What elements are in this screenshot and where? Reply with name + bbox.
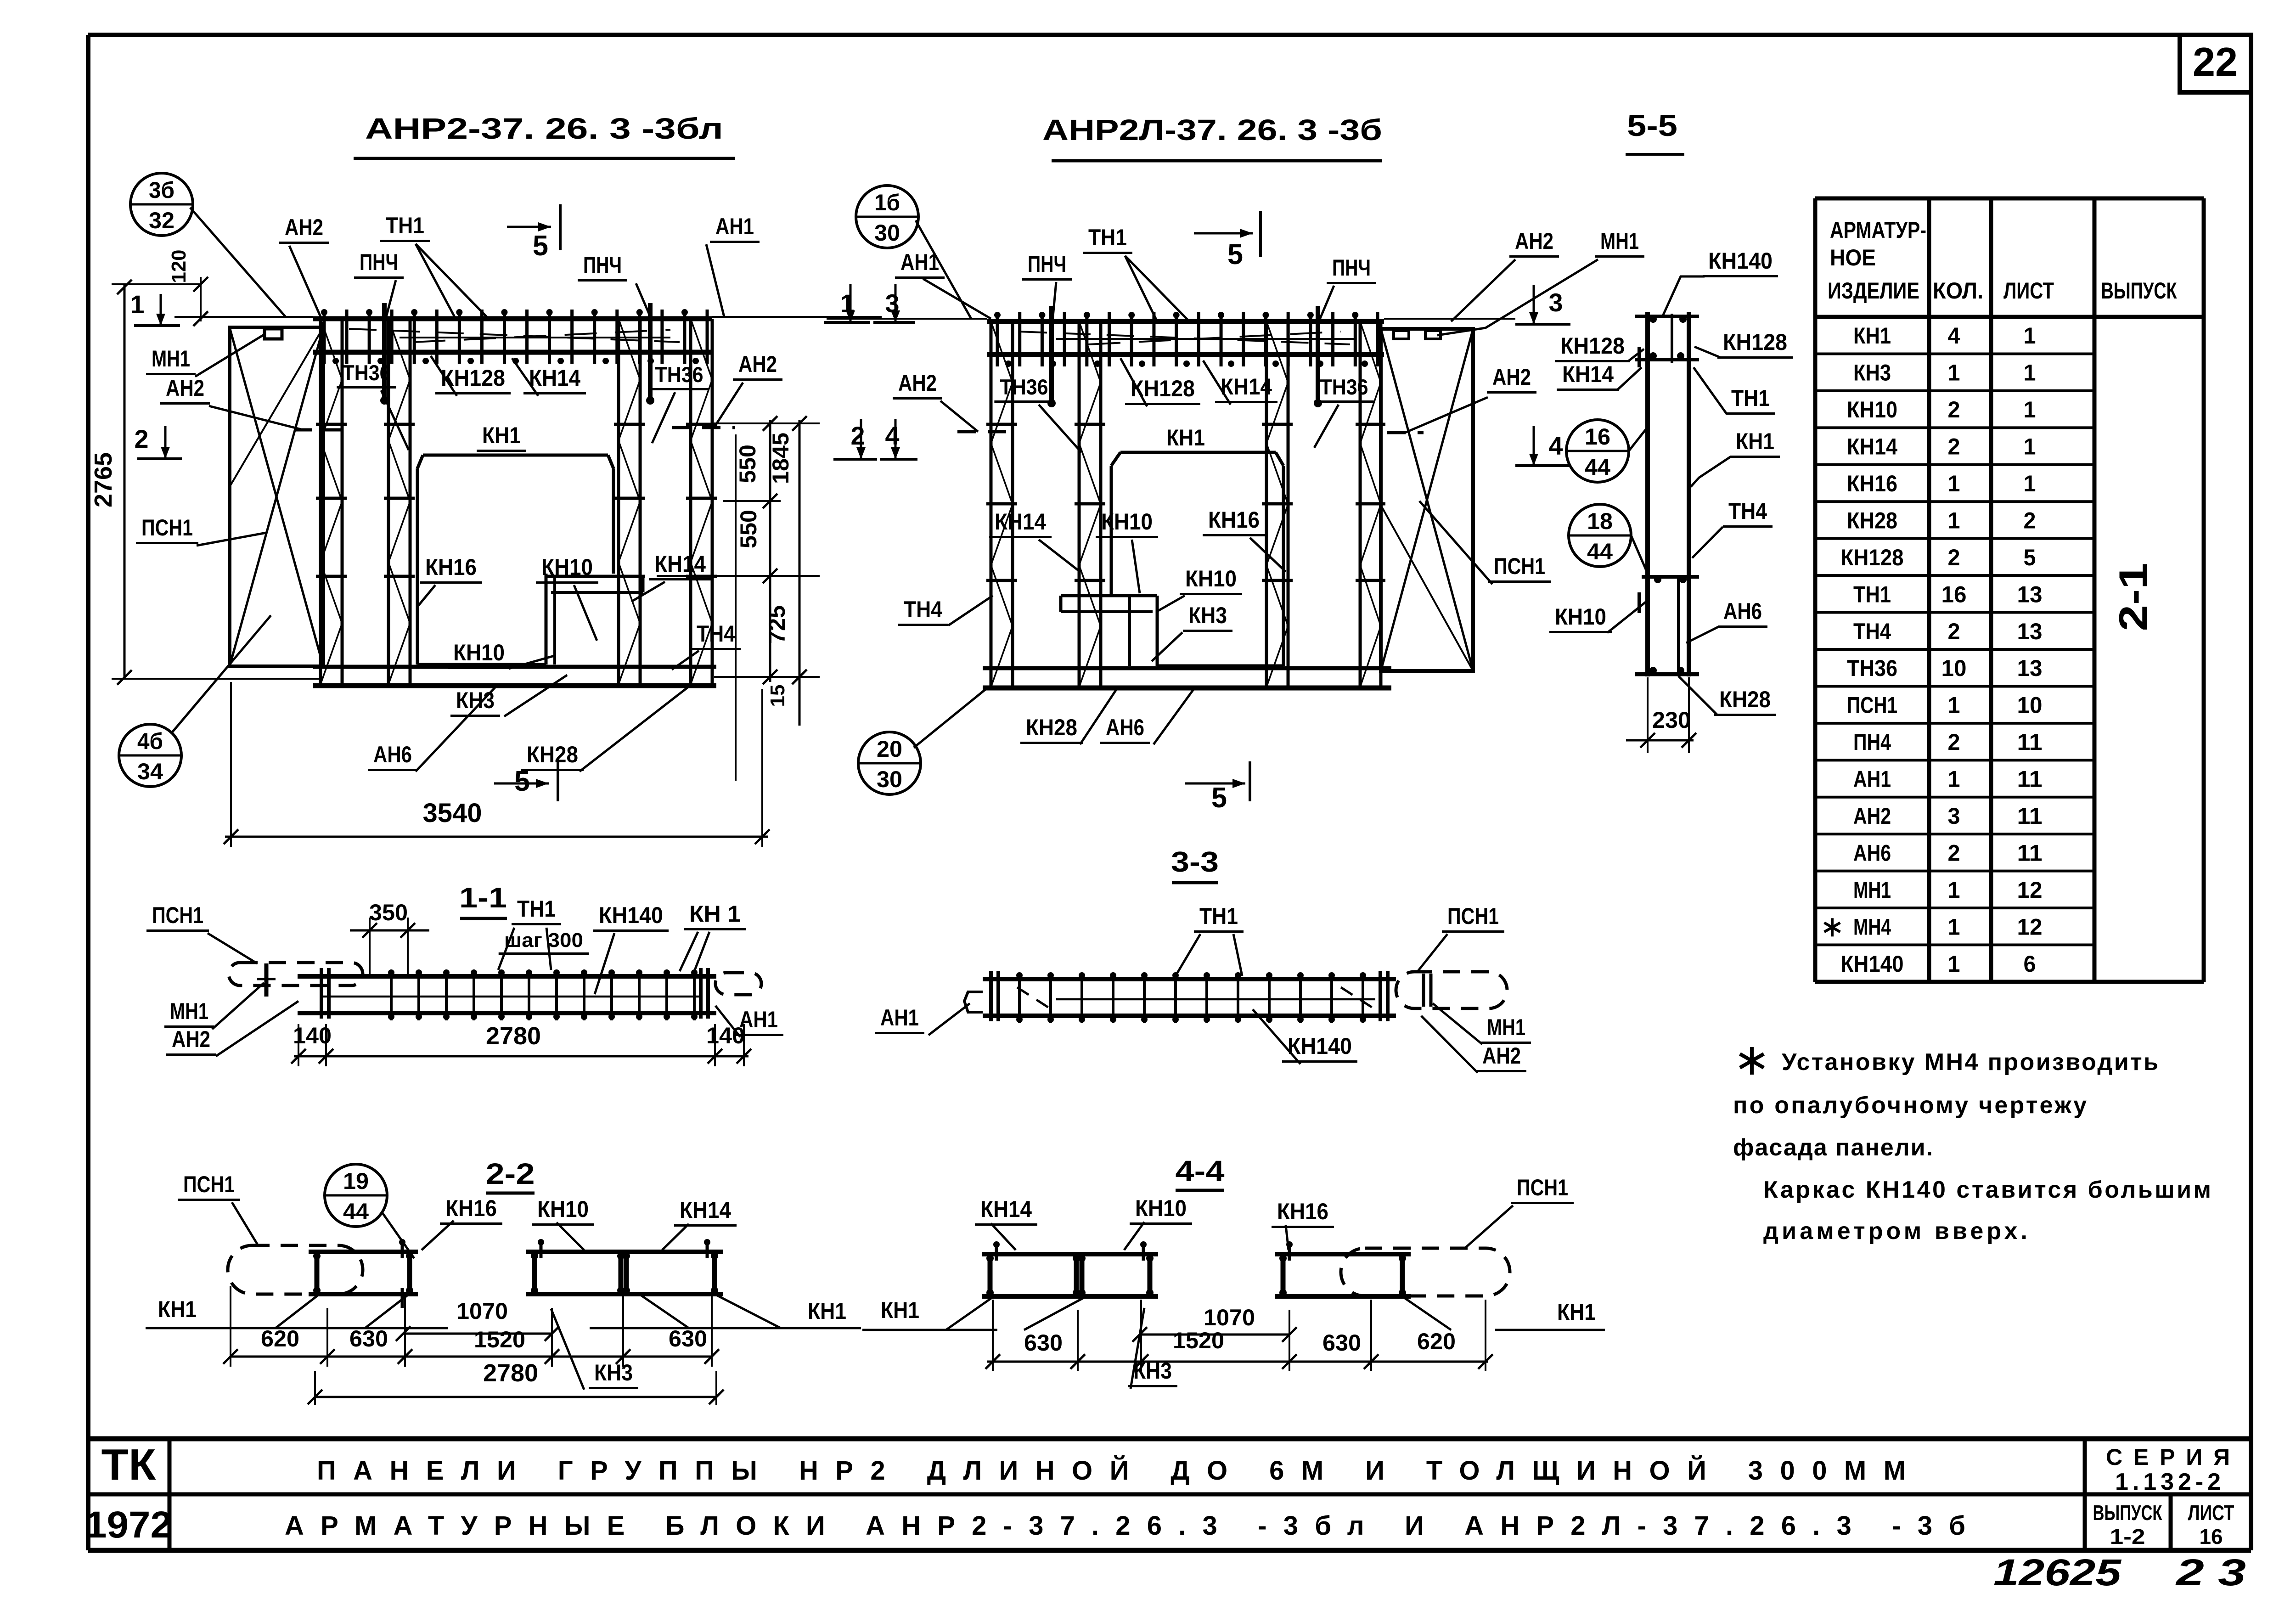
svg-text:МН1: МН1 <box>1853 877 1891 903</box>
svg-text:ПНЧ: ПНЧ <box>583 252 622 278</box>
svg-text:230: 230 <box>1652 707 1691 733</box>
svg-text:30: 30 <box>874 220 900 246</box>
svg-text:44: 44 <box>1585 454 1610 480</box>
svg-text:КН10: КН10 <box>453 640 505 665</box>
svg-text:2 3: 2 3 <box>2175 1552 2246 1594</box>
svg-text:10: 10 <box>1941 655 1967 681</box>
svg-text:МН1: МН1 <box>170 998 208 1024</box>
svg-text:диаметром вверх.: диаметром вверх. <box>1763 1218 2027 1245</box>
svg-text:КН16: КН16 <box>1847 471 1897 496</box>
svg-text:630: 630 <box>1024 1330 1063 1356</box>
svg-text:КН16: КН16 <box>445 1195 497 1221</box>
svg-text:ТН36: ТН36 <box>1000 375 1048 399</box>
svg-text:КН128: КН128 <box>1560 333 1625 359</box>
svg-text:1: 1 <box>1948 471 1960 496</box>
svg-text:КН1: КН1 <box>1853 323 1891 349</box>
svg-text:ТН36: ТН36 <box>1847 655 1897 681</box>
svg-text:АН2: АН2 <box>898 370 937 396</box>
svg-text:725: 725 <box>764 605 790 644</box>
svg-text:ТН1: ТН1 <box>1853 581 1891 607</box>
svg-text:АН1: АН1 <box>900 249 939 275</box>
svg-text:КН10: КН10 <box>537 1196 589 1222</box>
svg-text:КН16: КН16 <box>1208 507 1260 533</box>
svg-text:КН128: КН128 <box>1723 329 1787 355</box>
svg-text:ТН36: ТН36 <box>1320 375 1368 399</box>
svg-text:5: 5 <box>1227 239 1243 270</box>
svg-text:КН10: КН10 <box>1555 604 1606 630</box>
svg-text:3-3: 3-3 <box>1171 846 1219 878</box>
svg-text:АРМАТУР-: АРМАТУР- <box>1830 217 1926 243</box>
svg-text:КН140: КН140 <box>1288 1033 1352 1059</box>
svg-text:ТК: ТК <box>101 1440 156 1489</box>
svg-text:16: 16 <box>1585 424 1610 450</box>
svg-text:12: 12 <box>2017 914 2043 940</box>
svg-text:ПСН1: ПСН1 <box>183 1171 235 1197</box>
svg-text:ТН36: ТН36 <box>655 362 703 387</box>
svg-text:620: 620 <box>1417 1329 1456 1354</box>
svg-text:2: 2 <box>2024 507 2036 533</box>
svg-text:2: 2 <box>1948 434 1960 460</box>
svg-text:620: 620 <box>261 1326 299 1352</box>
svg-text:1: 1 <box>2024 397 2036 422</box>
svg-text:1: 1 <box>130 290 145 319</box>
svg-text:11: 11 <box>2017 729 2043 755</box>
svg-text:140: 140 <box>706 1023 745 1048</box>
svg-text:АН1: АН1 <box>715 214 754 239</box>
svg-text:15: 15 <box>766 685 789 707</box>
svg-text:по опалубочному чертежу: по опалубочному чертежу <box>1733 1092 2087 1119</box>
svg-text:140: 140 <box>293 1023 332 1048</box>
svg-text:МН1: МН1 <box>1600 228 1639 254</box>
svg-text:АН2: АН2 <box>1515 228 1553 254</box>
svg-text:1520: 1520 <box>474 1327 525 1352</box>
svg-text:ПСН1: ПСН1 <box>152 902 203 928</box>
svg-text:КН10: КН10 <box>1101 509 1153 535</box>
svg-text:КОЛ.: КОЛ. <box>1933 278 1983 304</box>
svg-text:КН14: КН14 <box>1562 361 1614 387</box>
svg-text:1520: 1520 <box>1173 1328 1224 1353</box>
svg-text:11: 11 <box>2017 840 2043 866</box>
svg-text:КН14: КН14 <box>654 551 706 577</box>
svg-text:1972: 1972 <box>85 1504 172 1546</box>
svg-text:АН6: АН6 <box>1853 840 1891 866</box>
svg-text:шаг 300: шаг 300 <box>504 929 583 952</box>
svg-text:10: 10 <box>2017 693 2043 718</box>
svg-text:ПНЧ: ПНЧ <box>360 249 398 275</box>
svg-text:1: 1 <box>1948 951 1960 977</box>
svg-text:3б: 3б <box>149 177 174 203</box>
svg-text:1: 1 <box>1948 914 1960 940</box>
svg-text:1: 1 <box>1948 766 1960 792</box>
svg-text:44: 44 <box>1587 539 1613 564</box>
svg-text:КН14: КН14 <box>1221 374 1272 400</box>
svg-text:ТН1: ТН1 <box>1199 903 1238 929</box>
svg-text:1: 1 <box>2024 434 2036 460</box>
svg-text:КН3: КН3 <box>594 1360 633 1385</box>
svg-text:2: 2 <box>1948 545 1960 570</box>
svg-text:630: 630 <box>669 1326 707 1352</box>
svg-text:КН 1: КН 1 <box>689 901 741 927</box>
svg-text:КН1: КН1 <box>1736 428 1774 454</box>
svg-text:АН1: АН1 <box>880 1005 919 1031</box>
svg-text:550: 550 <box>736 510 761 548</box>
svg-text:ЛИСТ: ЛИСТ <box>2188 1501 2234 1525</box>
svg-text:КН1: КН1 <box>808 1298 846 1324</box>
svg-text:МН4: МН4 <box>1853 914 1891 940</box>
svg-text:ТН4: ТН4 <box>1728 498 1767 524</box>
svg-text:2-1: 2-1 <box>2111 563 2155 631</box>
svg-text:2: 2 <box>851 421 865 450</box>
svg-text:КН16: КН16 <box>425 554 477 580</box>
svg-text:КН128: КН128 <box>1841 545 1904 570</box>
svg-text:30: 30 <box>877 766 902 792</box>
svg-text:3540: 3540 <box>423 798 482 828</box>
svg-text:МН1: МН1 <box>152 346 190 372</box>
svg-text:КН28: КН28 <box>527 742 578 767</box>
svg-text:4: 4 <box>1948 323 1960 349</box>
svg-text:АН2: АН2 <box>1492 364 1531 390</box>
svg-text:КН128: КН128 <box>1131 376 1195 401</box>
svg-text:18: 18 <box>1587 508 1613 534</box>
svg-text:1: 1 <box>2024 323 2036 349</box>
svg-text:АН6: АН6 <box>1106 715 1144 740</box>
svg-text:2780: 2780 <box>483 1359 538 1387</box>
svg-text:КН16: КН16 <box>1277 1199 1328 1224</box>
svg-text:1070: 1070 <box>1204 1305 1255 1330</box>
svg-text:КН28: КН28 <box>1026 715 1077 740</box>
svg-text:МН1: МН1 <box>1487 1014 1525 1040</box>
svg-text:13: 13 <box>2017 581 2043 607</box>
svg-text:КН3: КН3 <box>1188 603 1227 628</box>
svg-text:1: 1 <box>1948 693 1960 718</box>
svg-text:5-5: 5-5 <box>1627 108 1677 142</box>
svg-text:120: 120 <box>168 250 190 283</box>
svg-text:1: 1 <box>1948 877 1960 903</box>
svg-text:2: 2 <box>1948 397 1960 422</box>
svg-text:КН14: КН14 <box>680 1197 731 1223</box>
svg-text:ПСН1: ПСН1 <box>1847 693 1897 718</box>
svg-text:КН140: КН140 <box>1841 951 1904 977</box>
svg-text:КН10: КН10 <box>1135 1195 1187 1221</box>
svg-text:ПН4: ПН4 <box>1853 729 1891 755</box>
svg-text:Каркас КН140 ставится больш: Каркас КН140 ставится большим <box>1763 1177 2211 1203</box>
svg-text:ПСН1: ПСН1 <box>1494 553 1545 579</box>
svg-text:34: 34 <box>137 759 163 784</box>
svg-text:ТН4: ТН4 <box>904 597 942 622</box>
svg-text:1: 1 <box>2024 360 2036 386</box>
svg-text:АН2: АН2 <box>1853 803 1891 829</box>
svg-text:ПСН1: ПСН1 <box>1517 1175 1568 1200</box>
svg-text:1: 1 <box>2024 471 2036 496</box>
svg-text:АН6: АН6 <box>373 742 412 767</box>
svg-text:АН2: АН2 <box>172 1026 210 1052</box>
svg-text:32: 32 <box>149 208 174 233</box>
svg-text:12: 12 <box>2017 877 2043 903</box>
svg-text:ТН4: ТН4 <box>1853 619 1891 644</box>
svg-text:АН1: АН1 <box>1853 766 1891 792</box>
svg-text:16: 16 <box>1941 581 1967 607</box>
svg-text:КН1: КН1 <box>158 1296 197 1322</box>
svg-text:4-4: 4-4 <box>1176 1154 1225 1188</box>
svg-text:630: 630 <box>349 1326 388 1352</box>
svg-text:КН3: КН3 <box>1853 360 1891 386</box>
svg-text:20: 20 <box>877 736 902 762</box>
svg-text:1: 1 <box>1948 360 1960 386</box>
svg-text:1070: 1070 <box>456 1298 508 1324</box>
svg-text:5: 5 <box>533 230 548 262</box>
svg-text:1-1: 1-1 <box>459 882 507 914</box>
svg-text:2780: 2780 <box>486 1022 541 1050</box>
svg-text:АНР2-37. 26. 3 -3бл: АНР2-37. 26. 3 -3бл <box>365 112 723 145</box>
svg-text:ИЗДЕЛИЕ: ИЗДЕЛИЕ <box>1828 278 1919 304</box>
svg-text:КН10: КН10 <box>1185 566 1237 591</box>
svg-text:ВЫПУСК: ВЫПУСК <box>2101 278 2177 304</box>
svg-text:ТН1: ТН1 <box>517 896 556 922</box>
svg-text:1845: 1845 <box>768 433 793 484</box>
svg-text:ПСН1: ПСН1 <box>1447 903 1499 929</box>
svg-text:ТН1: ТН1 <box>1088 225 1127 250</box>
svg-text:2: 2 <box>135 424 149 453</box>
svg-text:КН28: КН28 <box>1719 687 1771 712</box>
svg-text:КН10: КН10 <box>1847 397 1897 422</box>
svg-text:КН14: КН14 <box>1847 434 1897 460</box>
svg-text:АН1: АН1 <box>739 1007 778 1032</box>
svg-text:КН14: КН14 <box>995 509 1046 535</box>
svg-text:350: 350 <box>369 900 408 925</box>
svg-text:КН14: КН14 <box>980 1196 1032 1222</box>
svg-text:4: 4 <box>885 421 900 450</box>
svg-text:11: 11 <box>2017 766 2043 792</box>
svg-text:3: 3 <box>1948 803 1960 829</box>
svg-text:12625: 12625 <box>1993 1552 2122 1594</box>
svg-text:КН1: КН1 <box>482 422 521 448</box>
svg-text:ТН36: ТН36 <box>343 360 391 385</box>
svg-text:ТН4: ТН4 <box>697 621 735 647</box>
svg-text:16: 16 <box>2200 1525 2223 1549</box>
svg-text:АН2: АН2 <box>285 214 323 240</box>
svg-text:13: 13 <box>2017 619 2043 644</box>
svg-text:4: 4 <box>1549 431 1563 460</box>
svg-text:КН140: КН140 <box>1708 248 1773 274</box>
svg-text:ТН1: ТН1 <box>1731 385 1770 411</box>
svg-text:КН1: КН1 <box>881 1297 919 1323</box>
svg-text:КН1: КН1 <box>1166 425 1205 451</box>
svg-text:КН1: КН1 <box>1557 1299 1596 1325</box>
svg-text:13: 13 <box>2017 655 2043 681</box>
svg-text:ТН1: ТН1 <box>386 213 424 238</box>
svg-text:КН3: КН3 <box>1133 1358 1172 1384</box>
svg-text:АН2: АН2 <box>738 351 777 377</box>
svg-text:6: 6 <box>2024 951 2036 977</box>
svg-text:ПНЧ: ПНЧ <box>1332 255 1371 281</box>
svg-text:5: 5 <box>2024 545 2036 570</box>
svg-text:19: 19 <box>343 1168 369 1194</box>
svg-text:630: 630 <box>1322 1330 1361 1356</box>
svg-text:КН140: КН140 <box>599 902 663 928</box>
svg-text:1б: 1б <box>874 190 900 215</box>
svg-text:2765: 2765 <box>90 452 117 507</box>
svg-text:ПСН1: ПСН1 <box>141 515 193 541</box>
svg-text:ЛИСТ: ЛИСТ <box>2003 278 2054 304</box>
svg-text:АН2: АН2 <box>1482 1043 1521 1069</box>
svg-text:550: 550 <box>735 445 760 483</box>
svg-text:КН28: КН28 <box>1847 507 1897 533</box>
svg-text:2: 2 <box>1948 840 1960 866</box>
svg-text:фасада панели.: фасада панели. <box>1733 1134 1933 1161</box>
svg-text:ВЫПУСК: ВЫПУСК <box>2093 1501 2163 1525</box>
svg-text:2: 2 <box>1948 619 1960 644</box>
svg-text:АН2: АН2 <box>166 375 204 401</box>
svg-text:ПНЧ: ПНЧ <box>1028 251 1066 277</box>
svg-text:4б: 4б <box>137 728 163 754</box>
svg-text:1: 1 <box>1948 507 1960 533</box>
svg-text:КН10: КН10 <box>541 554 593 580</box>
svg-text:22: 22 <box>2193 39 2238 84</box>
svg-text:2-2: 2-2 <box>486 1157 535 1190</box>
svg-text:1-2: 1-2 <box>2110 1525 2145 1549</box>
svg-text:НОЕ: НОЕ <box>1830 245 1876 270</box>
svg-text:5: 5 <box>1211 782 1227 814</box>
svg-text:44: 44 <box>343 1199 369 1224</box>
svg-text:11: 11 <box>2017 803 2043 829</box>
svg-text:2: 2 <box>1948 729 1960 755</box>
svg-text:АНР2Л-37. 26. 3 -3б: АНР2Л-37. 26. 3 -3б <box>1042 113 1382 146</box>
svg-text:АН6: АН6 <box>1723 598 1762 624</box>
svg-text:3: 3 <box>1549 288 1563 317</box>
svg-text:КН14: КН14 <box>529 365 580 391</box>
